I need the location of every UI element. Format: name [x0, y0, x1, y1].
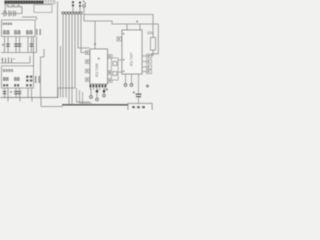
wire [33, 37, 35, 67]
pin 3 U1 [86, 69, 90, 73]
wire [81, 14, 86, 52]
capacitor C15 [103, 88, 106, 97]
wire [149, 50, 153, 56]
wire [22, 16, 37, 18]
label under strip [6, 5, 20, 6]
svg-text:88: 88 [3, 30, 11, 37]
capacitor C10 label block [26, 76, 32, 82]
wire [19, 88, 21, 98]
capacitor C12 [14, 92, 18, 94]
bus GND bottom [62, 104, 128, 106]
wire [77, 88, 91, 102]
wire [62, 14, 64, 97]
wire [126, 24, 128, 30]
wire [1, 13, 22, 15]
capacitor cluster C1 C2 C3 [4, 11, 16, 17]
node [147, 85, 149, 87]
wire [80, 90, 93, 103]
wire [41, 98, 63, 107]
label rotated [35, 76, 40, 83]
svg-text:ICL7106: ICL7106 [95, 63, 99, 77]
pin 3 U2 [142, 60, 152, 64]
wire [118, 71, 122, 73]
wire branch [139, 24, 141, 30]
connector J1 upper pads [72, 1, 81, 7]
wire [4, 4, 6, 13]
wire [125, 74, 127, 83]
terminal strip TB1 [5, 1, 56, 4]
pin 4 U2 [142, 65, 152, 69]
pin 7 U1 [108, 79, 112, 83]
pin labels U1 bottom [90, 88, 106, 89]
rail V2 [84, 21, 158, 54]
capacitor C7 [30, 44, 34, 46]
edge shade U2 [122, 30, 141, 32]
svg-text:88: 88 [26, 30, 34, 37]
bus [1, 62, 31, 64]
capacitor C14 [96, 88, 99, 101]
bus [1, 52, 37, 54]
connector J1 circles [62, 12, 82, 14]
wire [27, 88, 29, 98]
connector J2 [112, 58, 119, 80]
node VCC [83, 5, 86, 8]
wire stub [7, 98, 9, 102]
svg-text:12V: 12V [147, 31, 154, 35]
capacitor C5 [14, 44, 18, 46]
wire [4, 37, 6, 53]
wire [4, 88, 6, 98]
pin 5 U2 [142, 70, 152, 74]
capacitor C16 [133, 74, 142, 104]
junction [94, 43, 96, 45]
rail V+ [84, 14, 154, 16]
wire [19, 37, 21, 53]
wire [31, 88, 33, 98]
wire [27, 37, 29, 53]
capacitor C4 [6, 44, 10, 46]
capacitor C6 [18, 44, 22, 46]
capacitor C13 [18, 92, 22, 94]
wire [7, 88, 9, 98]
wire [29, 56, 31, 63]
wire [78, 14, 90, 48]
module A3 [128, 104, 152, 111]
pin 2 U2 [142, 54, 152, 58]
wire [68, 14, 70, 104]
wire [41, 49, 45, 98]
wire [7, 7, 22, 14]
plus mark [2, 44, 4, 46]
plus mark [10, 91, 12, 93]
pin 1 U2 [117, 37, 122, 41]
pin 6 U1 [108, 71, 112, 75]
pin 2 U1 [86, 60, 90, 64]
wire stub [31, 98, 33, 102]
label marks [83, 1, 86, 4]
wire [36, 37, 38, 53]
pin row U1 bottom [90, 85, 107, 88]
node [124, 84, 127, 87]
wire [152, 15, 154, 38]
wire [15, 37, 17, 53]
wire [83, 7, 85, 21]
plus mark [1, 58, 15, 61]
svg-text:5000: 5000 [3, 68, 14, 73]
wire [60, 46, 62, 98]
wire [57, 2, 59, 98]
svg-text:88: 88 [14, 30, 22, 37]
wire [58, 14, 75, 97]
node [130, 84, 133, 87]
svg-text:ICL7107: ICL7107 [130, 52, 134, 66]
wire [118, 59, 122, 61]
plus mark [106, 89, 108, 91]
wire [36, 17, 38, 20]
resistor R1 [151, 38, 156, 51]
wire loop [34, 5, 52, 13]
capacitor row C8 [3, 58, 12, 64]
wire [73, 7, 80, 12]
plus mark [136, 21, 138, 23]
pin 1 U1 [86, 51, 90, 55]
label 230V rotated [36, 29, 41, 35]
bus GND left [1, 97, 59, 99]
pin 5 U1 [108, 55, 112, 59]
plus mark [98, 57, 101, 59]
wire [7, 37, 9, 53]
pin 4 U1 [86, 78, 90, 82]
test point TP1 [90, 88, 93, 99]
IC U1 [90, 49, 108, 84]
wire [31, 37, 33, 53]
label bottom row [3, 84, 32, 87]
wire [15, 88, 17, 98]
wire [65, 14, 67, 97]
svg-text:8586: 8586 [3, 21, 14, 26]
svg-text:88: 88 [3, 77, 9, 83]
svg-text:88: 88 [14, 77, 20, 83]
pin number marks U2 [123, 33, 124, 72]
PCB module A1 [2, 20, 36, 37]
PCB module A2 [2, 66, 34, 88]
wire [71, 14, 73, 104]
IC U2 [122, 30, 142, 74]
wire stub [19, 98, 21, 102]
wire [131, 74, 133, 83]
wire [94, 21, 96, 49]
wire [82, 92, 84, 105]
capacitor C11 [3, 92, 7, 94]
